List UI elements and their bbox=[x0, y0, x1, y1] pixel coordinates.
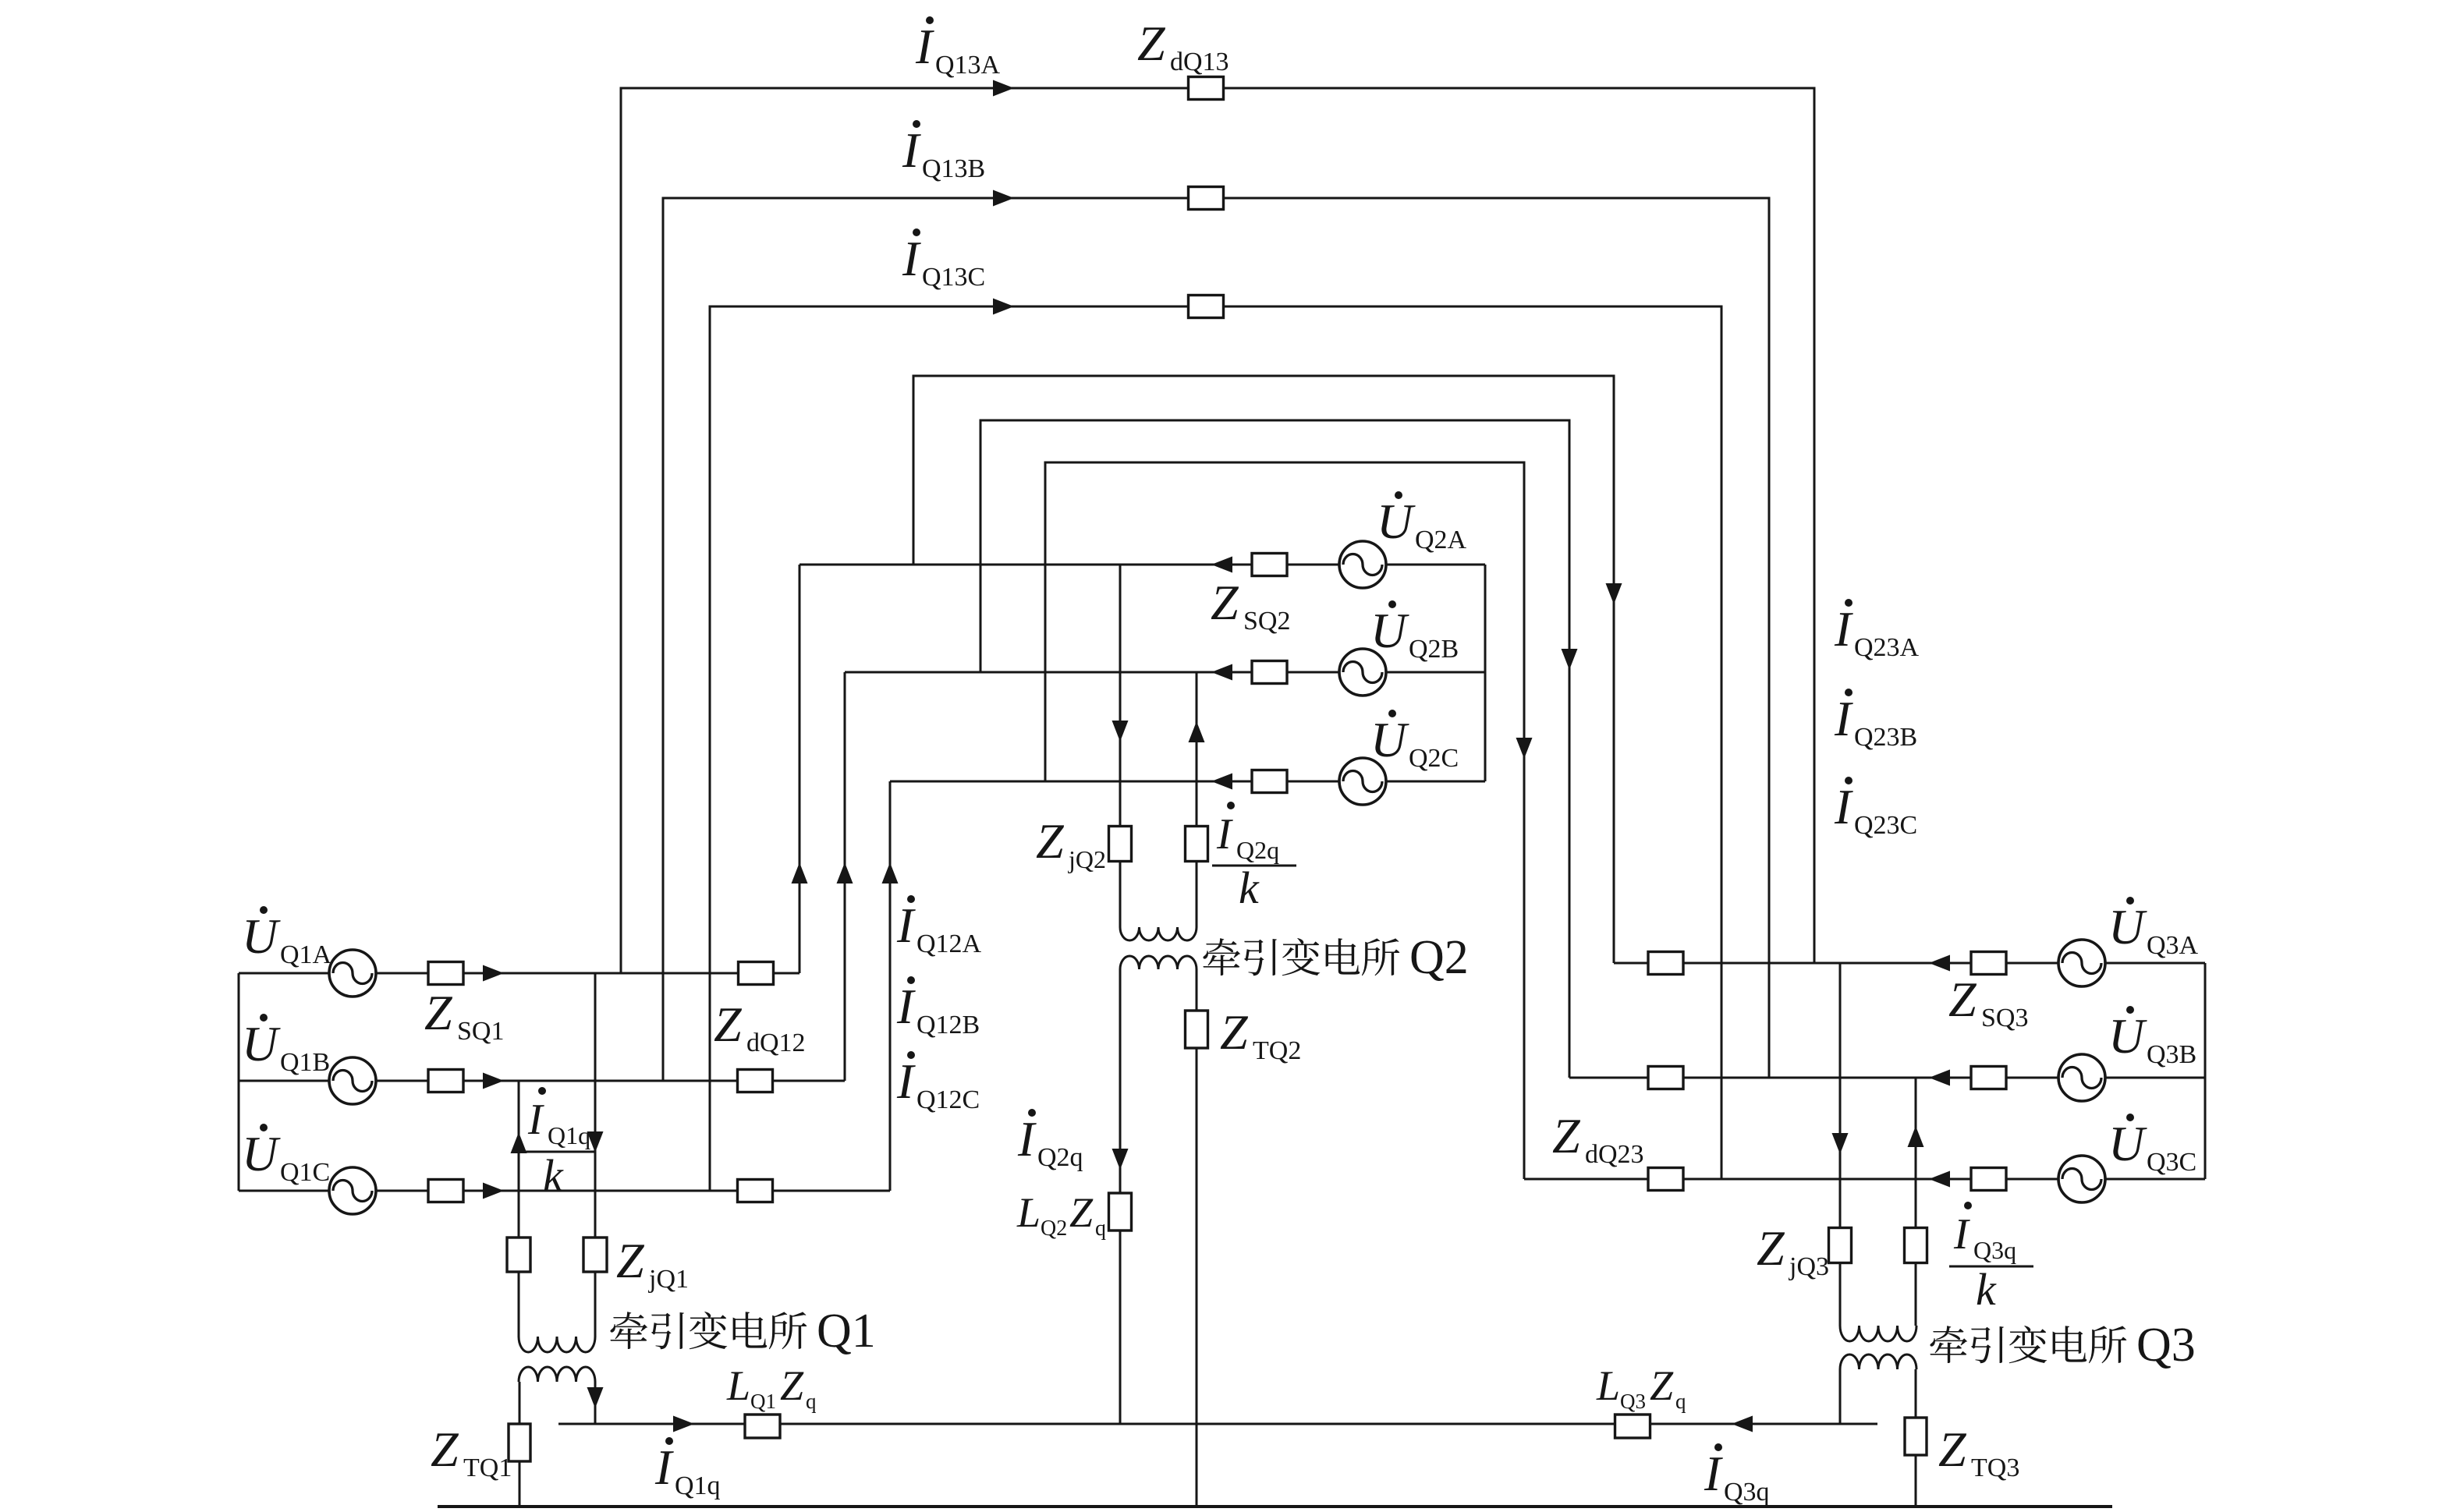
label U_Q3C bbox=[2108, 1114, 2196, 1177]
label I_Q3q feeder bbox=[1704, 1443, 1770, 1507]
svg-text:U: U bbox=[242, 908, 281, 964]
wire Q2 transformer right leg bbox=[1196, 672, 1198, 927]
wire I_Q12B riser bbox=[844, 672, 846, 1081]
label traction substation Q2 bbox=[1203, 931, 1468, 984]
label I_Q1q feeder bbox=[654, 1437, 721, 1500]
wire Q3 phase B row bbox=[1569, 1077, 2205, 1079]
label L_Q1 Z_q bbox=[726, 1362, 817, 1413]
svg-text:Q23A: Q23A bbox=[1854, 633, 1920, 662]
impedance L_Q3 Z_q box bbox=[1615, 1415, 1650, 1438]
transformer T1 primary coil bbox=[519, 1337, 595, 1352]
svg-text:Q12C: Q12C bbox=[916, 1085, 980, 1114]
svg-text:Z: Z bbox=[714, 997, 743, 1052]
impedance Z_jQ1 right box bbox=[583, 1238, 607, 1272]
svg-text:Q3A: Q3A bbox=[2147, 931, 2199, 960]
impedance Z_SQ1 phase A box bbox=[428, 962, 463, 985]
svg-text:Z: Z bbox=[1137, 16, 1166, 71]
source U_Q2B bbox=[1339, 649, 1386, 696]
arrow Q2 phase A current (left) bbox=[1211, 557, 1232, 573]
wire Q2 right bus bbox=[1484, 565, 1487, 781]
source U_Q1B bbox=[329, 1057, 376, 1104]
svg-text:TQ3: TQ3 bbox=[1971, 1454, 2019, 1482]
wire Q3 phase C row bbox=[1524, 1178, 2205, 1181]
svg-text:Z: Z bbox=[1211, 575, 1239, 630]
svg-text:jQ1: jQ1 bbox=[648, 1265, 689, 1294]
label I_Q13A bbox=[915, 16, 1001, 80]
label Z_SQ1 bbox=[424, 985, 504, 1046]
svg-text:Z: Z bbox=[780, 1362, 804, 1409]
impedance L_Q1 Z_q box bbox=[745, 1415, 780, 1438]
label I_Q1q over k fraction bbox=[523, 1087, 594, 1201]
wire Q1 transformer right leg bbox=[594, 973, 597, 1337]
svg-text:Q3q: Q3q bbox=[1973, 1236, 2016, 1264]
svg-text:Q1q: Q1q bbox=[548, 1121, 590, 1149]
arrow Q1 phase C current bbox=[483, 1183, 504, 1199]
arrow Q3 right leg up bbox=[1908, 1126, 1924, 1147]
wire I_Q12A riser (Q1 to Q2 phase A) bbox=[799, 565, 801, 973]
label Z_SQ2 bbox=[1211, 575, 1290, 636]
impedance Z_jQ1 left box bbox=[507, 1238, 530, 1272]
impedance Z_jQ3 right box bbox=[1905, 1228, 1927, 1263]
label U_Q1C bbox=[242, 1124, 330, 1187]
wire I_Q12C riser bbox=[889, 781, 892, 1191]
label I_Q12C bbox=[896, 1051, 980, 1114]
wire I_Q13B line bbox=[663, 198, 1769, 1081]
arrow I_Q3q feeder direction bbox=[1732, 1416, 1753, 1432]
impedance Z_SQ3 phase C box bbox=[1971, 1168, 2006, 1191]
wire I_Q23B line bbox=[980, 420, 1569, 1078]
wire I_Q13C line bbox=[710, 306, 1721, 1191]
impedance Z_SQ1 phase B box bbox=[428, 1070, 463, 1092]
impedance Z_TQ3 box bbox=[1905, 1418, 1927, 1455]
svg-text:Q23B: Q23B bbox=[1854, 723, 1917, 752]
source U_Q3C bbox=[2058, 1156, 2105, 1202]
svg-text:Q2: Q2 bbox=[1041, 1216, 1067, 1241]
svg-text:Z: Z bbox=[1069, 1189, 1094, 1236]
svg-text:q: q bbox=[1675, 1390, 1686, 1413]
arrow I_Q1q feeder direction bbox=[673, 1416, 694, 1432]
label Z_TQ2 bbox=[1220, 1004, 1301, 1065]
svg-text:U: U bbox=[1370, 603, 1409, 658]
transformer T3 primary coil bbox=[1840, 1326, 1916, 1341]
svg-text:Q3q: Q3q bbox=[1724, 1478, 1770, 1507]
transformer T2 secondary coil bbox=[1120, 956, 1197, 969]
wire Q2 phase C row bbox=[890, 781, 1485, 783]
label U_Q2B bbox=[1370, 600, 1459, 664]
svg-text:Q2A: Q2A bbox=[1415, 526, 1467, 554]
arrow I_Q12C direction (up) bbox=[882, 862, 899, 883]
impedance Z_dQ23 phase B box bbox=[1648, 1067, 1683, 1089]
label L_Q3 Z_q bbox=[1596, 1362, 1686, 1413]
svg-text:Q2q: Q2q bbox=[1037, 1143, 1083, 1172]
wire I_Q23C line bbox=[1045, 462, 1524, 1179]
transformer T2 primary coil bbox=[1120, 927, 1197, 940]
label Z_TQ3 bbox=[1938, 1422, 2019, 1482]
svg-text:I: I bbox=[896, 898, 916, 953]
svg-text:Q3: Q3 bbox=[2136, 1319, 2196, 1372]
svg-text:U: U bbox=[1370, 712, 1409, 767]
svg-text:Z: Z bbox=[1948, 972, 1977, 1027]
svg-text:Z: Z bbox=[1552, 1108, 1581, 1163]
wire Q2 secondary left to feeder bbox=[1119, 969, 1122, 1424]
label traction substation Q3 bbox=[1930, 1319, 2195, 1372]
impedance Z_dQ13 (phase A box) bbox=[1189, 77, 1224, 100]
svg-text:Q3: Q3 bbox=[1620, 1390, 1646, 1413]
svg-text:Z: Z bbox=[616, 1233, 645, 1288]
impedance Z_dQ12 phase C box bbox=[738, 1180, 773, 1202]
svg-text:Q3C: Q3C bbox=[2147, 1148, 2196, 1177]
arrow Q2 phase C current (left) bbox=[1211, 774, 1232, 790]
svg-text:SQ2: SQ2 bbox=[1243, 607, 1290, 636]
arrow I_Q1q/k up (Q1 left leg) bbox=[511, 1132, 527, 1153]
wire Q3 right bus bbox=[2204, 963, 2207, 1179]
label U_Q1B bbox=[242, 1014, 330, 1077]
arrow Q3 phase A current (left) bbox=[1929, 955, 1950, 972]
svg-text:Q3B: Q3B bbox=[2147, 1040, 2196, 1069]
svg-text:U: U bbox=[242, 1126, 281, 1181]
arrow I_Q13A direction bbox=[993, 80, 1014, 97]
svg-text:I: I bbox=[527, 1096, 544, 1144]
arrow I_Q13B direction bbox=[993, 190, 1014, 207]
svg-text:Q2: Q2 bbox=[1409, 931, 1469, 984]
wire Q1 phase C row bbox=[239, 1190, 890, 1192]
svg-text:Q1: Q1 bbox=[817, 1305, 876, 1358]
svg-text:I: I bbox=[1704, 1446, 1723, 1501]
label Z_jQ1 bbox=[616, 1233, 689, 1294]
wire I_Q23A line (Q2 to Q3) bbox=[913, 376, 1614, 963]
transformer T3 secondary coil bbox=[1840, 1354, 1916, 1369]
impedance Z_TQ1 box bbox=[509, 1424, 530, 1461]
svg-text:k: k bbox=[543, 1150, 564, 1201]
impedance Z_dQ12 phase B box bbox=[738, 1070, 773, 1092]
arrow Q1 feeder down bbox=[587, 1387, 604, 1408]
impedance Z_SQ2 phase C box bbox=[1252, 770, 1287, 793]
arrow I_Q13C direction bbox=[993, 299, 1014, 315]
impedance Z_SQ1 phase C box bbox=[428, 1180, 463, 1202]
arrow Q2 left leg down bbox=[1112, 721, 1129, 742]
arrow Q3 phase C current (left) bbox=[1929, 1171, 1950, 1188]
svg-text:I: I bbox=[1017, 1111, 1037, 1167]
label Z_dQ13 bbox=[1137, 16, 1229, 76]
label traction substation Q1 bbox=[610, 1305, 875, 1358]
svg-text:I: I bbox=[1953, 1210, 1970, 1259]
label I_Q23B bbox=[1834, 689, 1917, 752]
label Z_jQ2 bbox=[1036, 813, 1106, 873]
wire Q1 transformer left leg bbox=[518, 1081, 520, 1337]
impedance Z_dQ23 phase A box bbox=[1648, 952, 1683, 975]
wire I_Q13A line (Q1 to Q3, top) bbox=[621, 88, 1814, 973]
source U_Q3A bbox=[2058, 940, 2105, 986]
wire Q1 phase A row bbox=[239, 972, 799, 975]
label I_Q13C bbox=[902, 228, 985, 292]
svg-text:I: I bbox=[902, 122, 921, 178]
arrow Q3 phase B current (left) bbox=[1929, 1070, 1950, 1086]
svg-text:I: I bbox=[1216, 810, 1233, 859]
arrow I_Q23A direction (down) bbox=[1606, 583, 1622, 604]
svg-text:U: U bbox=[2108, 1116, 2147, 1171]
wire Q3 phase A row bbox=[1614, 962, 2205, 965]
svg-text:TQ1: TQ1 bbox=[463, 1454, 512, 1482]
svg-text:k: k bbox=[1239, 862, 1260, 913]
label Z_SQ3 bbox=[1948, 972, 2028, 1032]
impedance Z_jQ3 left box bbox=[1829, 1228, 1852, 1263]
label I_Q12A bbox=[896, 895, 982, 958]
svg-text:dQ23: dQ23 bbox=[1585, 1140, 1644, 1169]
label I_Q2q over k fraction bbox=[1212, 802, 1296, 913]
source U_Q2A bbox=[1339, 541, 1386, 588]
label I_Q12B bbox=[896, 976, 980, 1039]
svg-text:dQ13: dQ13 bbox=[1170, 48, 1229, 76]
wire catenary feeder line bbox=[558, 1423, 1877, 1425]
wire Q1 left bus bbox=[238, 973, 240, 1191]
svg-text:L: L bbox=[1016, 1189, 1041, 1236]
transformer T1 secondary coil bbox=[519, 1367, 595, 1382]
wire Q3 transformer right leg bbox=[1915, 1078, 1917, 1326]
svg-text:jQ3: jQ3 bbox=[1789, 1252, 1829, 1281]
svg-text:TQ2: TQ2 bbox=[1253, 1036, 1301, 1065]
svg-text:L: L bbox=[726, 1362, 750, 1409]
svg-text:I: I bbox=[896, 1053, 916, 1109]
svg-text:Q13B: Q13B bbox=[922, 154, 985, 183]
svg-text:Q2C: Q2C bbox=[1409, 744, 1459, 773]
label I_Q2q bbox=[1017, 1109, 1083, 1172]
wire Z_TQ1 leg to rail bbox=[519, 1382, 521, 1507]
svg-text:U: U bbox=[2108, 1008, 2147, 1064]
svg-text:I: I bbox=[902, 231, 921, 286]
wire Z_TQ3 leg to rail bbox=[1915, 1369, 1917, 1507]
label U_Q2C bbox=[1370, 710, 1459, 773]
label Z_dQ12 bbox=[714, 997, 806, 1057]
wire Q1 phase B row bbox=[239, 1080, 845, 1082]
impedance Z_SQ3 phase B box bbox=[1971, 1067, 2006, 1089]
impedance Z_jQ2 left box bbox=[1109, 827, 1132, 862]
svg-text:L: L bbox=[1596, 1362, 1620, 1409]
label I_Q3q over k fraction bbox=[1949, 1202, 2033, 1315]
svg-text:I: I bbox=[1834, 691, 1853, 746]
label U_Q1A bbox=[242, 906, 332, 969]
label I_Q23A bbox=[1834, 599, 1920, 662]
svg-text:Z: Z bbox=[431, 1422, 459, 1477]
impedance Z_dQ23 phase C box bbox=[1648, 1168, 1683, 1191]
svg-text:dQ12: dQ12 bbox=[746, 1029, 806, 1057]
svg-text:U: U bbox=[242, 1016, 281, 1071]
svg-text:q: q bbox=[1095, 1216, 1106, 1241]
svg-text:Q13A: Q13A bbox=[935, 51, 1001, 80]
wire Q2 transformer left leg bbox=[1119, 565, 1122, 927]
label L_Q2 Z_q bbox=[1016, 1189, 1106, 1241]
impedance Z_jQ2 right box bbox=[1186, 827, 1208, 862]
svg-text:Q12A: Q12A bbox=[916, 930, 982, 958]
label Z_jQ3 bbox=[1757, 1220, 1829, 1281]
source U_Q2C bbox=[1339, 758, 1386, 805]
wire Q1 secondary to feeder bbox=[594, 1382, 597, 1424]
svg-text:Q1B: Q1B bbox=[280, 1048, 330, 1077]
wire Q3 secondary left to feeder bbox=[1839, 1369, 1842, 1424]
label U_Q2A bbox=[1377, 491, 1467, 554]
svg-text:Q1: Q1 bbox=[750, 1390, 776, 1413]
svg-text:Z: Z bbox=[1220, 1004, 1249, 1060]
impedance Z_dQ13 phase C box bbox=[1189, 296, 1224, 318]
svg-text:U: U bbox=[2108, 899, 2147, 954]
svg-text:I: I bbox=[654, 1439, 674, 1495]
wire Q2 phase B row bbox=[845, 671, 1485, 674]
impedance Z_SQ3 phase A box bbox=[1971, 952, 2006, 975]
svg-text:SQ1: SQ1 bbox=[457, 1017, 504, 1046]
label U_Q3B bbox=[2108, 1006, 2196, 1069]
svg-text:Q1C: Q1C bbox=[280, 1158, 330, 1187]
arrow I_Q2q down bbox=[1112, 1149, 1129, 1170]
arrow I_Q12A direction (up) bbox=[792, 862, 808, 883]
label I_Q23C bbox=[1834, 777, 1917, 840]
arrow Q2 right leg up bbox=[1189, 721, 1205, 742]
impedance Z_dQ12 phase A box bbox=[739, 962, 774, 985]
arrow Q2 phase B current (left) bbox=[1211, 664, 1232, 681]
label U_Q3A bbox=[2108, 897, 2199, 960]
svg-text:Q2q: Q2q bbox=[1236, 836, 1279, 864]
source U_Q1A bbox=[329, 950, 376, 997]
svg-text:Q1A: Q1A bbox=[280, 940, 332, 969]
arrow I_Q23C direction (down) bbox=[1516, 738, 1533, 759]
svg-text:I: I bbox=[896, 979, 916, 1034]
impedance Z_TQ2 box bbox=[1186, 1011, 1208, 1048]
arrow Q1 phase A current bbox=[483, 965, 504, 982]
svg-text:Q2B: Q2B bbox=[1409, 635, 1459, 664]
svg-text:Q1q: Q1q bbox=[675, 1471, 721, 1500]
arrow I_Q12B direction (up) bbox=[837, 862, 853, 883]
svg-text:q: q bbox=[806, 1390, 817, 1413]
svg-text:Z: Z bbox=[424, 985, 453, 1040]
impedance L_Q2 Z_q box bbox=[1109, 1193, 1132, 1230]
svg-text:jQ2: jQ2 bbox=[1068, 845, 1106, 873]
svg-text:Q13C: Q13C bbox=[922, 263, 985, 292]
wire Q2 phase A row bbox=[799, 564, 1485, 566]
svg-text:I: I bbox=[1834, 601, 1853, 657]
svg-text:Z: Z bbox=[1650, 1362, 1674, 1409]
svg-text:Z: Z bbox=[1938, 1422, 1967, 1477]
svg-text:Z: Z bbox=[1757, 1220, 1785, 1276]
arrow I_Q23B direction (down) bbox=[1562, 649, 1578, 670]
arrow Q1 phase B current bbox=[483, 1073, 504, 1089]
rail return line bbox=[438, 1505, 2112, 1508]
wire Z_TQ2 leg to rail bbox=[1196, 969, 1198, 1507]
svg-text:k: k bbox=[1976, 1264, 1997, 1315]
svg-text:U: U bbox=[1377, 494, 1416, 549]
svg-text:Q23C: Q23C bbox=[1854, 811, 1917, 840]
source U_Q1C bbox=[329, 1167, 376, 1214]
svg-text:SQ3: SQ3 bbox=[1981, 1004, 2028, 1032]
impedance Z_SQ2 phase B box bbox=[1252, 661, 1287, 684]
label I_Q13B bbox=[902, 120, 985, 183]
label Z_TQ1 bbox=[431, 1422, 512, 1482]
impedance Z_SQ2 phase A box bbox=[1252, 554, 1287, 576]
arrow Q3 left leg down bbox=[1832, 1133, 1849, 1154]
label Z_dQ23 bbox=[1552, 1108, 1644, 1169]
source U_Q3B bbox=[2058, 1054, 2105, 1101]
svg-text:I: I bbox=[1834, 779, 1853, 834]
arrow Q1 right leg down bbox=[587, 1131, 604, 1153]
wire Q3 transformer left leg bbox=[1839, 963, 1842, 1326]
svg-text:Z: Z bbox=[1036, 813, 1065, 869]
svg-text:I: I bbox=[915, 19, 934, 74]
svg-text:Q12B: Q12B bbox=[916, 1011, 980, 1039]
impedance Z_dQ13 phase B box bbox=[1189, 187, 1224, 210]
